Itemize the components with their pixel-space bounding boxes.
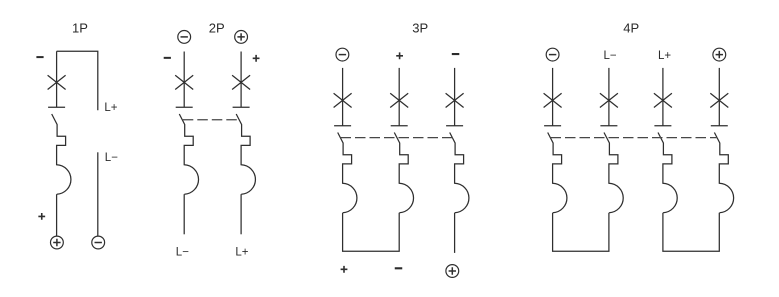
svg-text:L+: L+: [104, 102, 117, 114]
svg-text:L−: L−: [604, 50, 617, 62]
svg-text:L−: L−: [176, 247, 189, 259]
svg-text:3P: 3P: [412, 21, 428, 36]
svg-text:4P: 4P: [623, 21, 639, 36]
svg-text:2P: 2P: [209, 21, 225, 36]
svg-text:L−: L−: [105, 152, 118, 164]
svg-text:L+: L+: [658, 50, 671, 62]
svg-text:L+: L+: [235, 246, 248, 258]
svg-text:1P: 1P: [72, 21, 88, 36]
